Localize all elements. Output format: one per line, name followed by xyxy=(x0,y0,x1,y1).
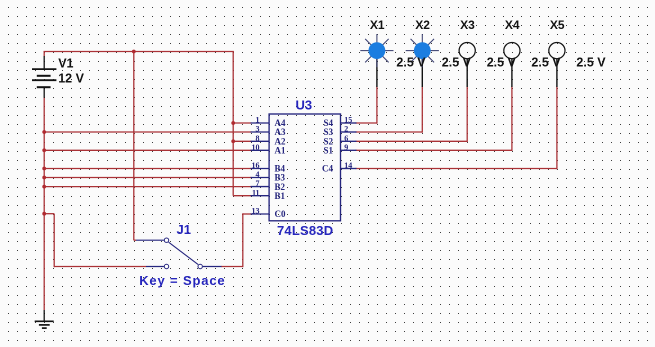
svg-text:74LS83D: 74LS83D xyxy=(277,223,333,238)
svg-text:X3: X3 xyxy=(460,18,475,32)
svg-text:6: 6 xyxy=(344,134,348,143)
svg-text:4: 4 xyxy=(256,170,260,179)
svg-text:X5: X5 xyxy=(550,18,565,32)
svg-text:13: 13 xyxy=(252,207,260,216)
svg-text:A1: A1 xyxy=(275,146,286,156)
svg-text:V1: V1 xyxy=(58,57,73,71)
svg-text:1: 1 xyxy=(256,116,260,125)
svg-text:3: 3 xyxy=(256,125,260,134)
svg-text:U3: U3 xyxy=(296,98,313,113)
svg-text:S1: S1 xyxy=(323,146,333,156)
svg-text:J1: J1 xyxy=(177,222,191,237)
svg-text:X1: X1 xyxy=(370,18,385,32)
svg-text:X2: X2 xyxy=(415,18,430,32)
svg-text:2.5 V: 2.5 V xyxy=(576,55,606,69)
svg-text:Key = Space: Key = Space xyxy=(139,273,225,288)
svg-text:2.5 V: 2.5 V xyxy=(396,55,426,69)
svg-text:14: 14 xyxy=(344,161,352,170)
svg-text:2.5 V: 2.5 V xyxy=(487,55,517,69)
svg-text:10: 10 xyxy=(252,143,260,152)
svg-text:2.5 V: 2.5 V xyxy=(531,55,561,69)
svg-text:7: 7 xyxy=(256,179,260,188)
svg-text:16: 16 xyxy=(252,161,260,170)
svg-text:B1: B1 xyxy=(275,191,286,201)
svg-text:12 V: 12 V xyxy=(58,71,84,85)
svg-text:15: 15 xyxy=(344,116,352,125)
svg-text:C0: C0 xyxy=(275,209,286,219)
svg-text:11: 11 xyxy=(252,188,260,197)
svg-text:2: 2 xyxy=(344,125,348,134)
svg-text:2.5 V: 2.5 V xyxy=(442,55,472,69)
svg-text:8: 8 xyxy=(256,134,260,143)
svg-text:9: 9 xyxy=(344,143,348,152)
svg-text:C4: C4 xyxy=(322,164,333,174)
svg-text:X4: X4 xyxy=(505,18,520,32)
